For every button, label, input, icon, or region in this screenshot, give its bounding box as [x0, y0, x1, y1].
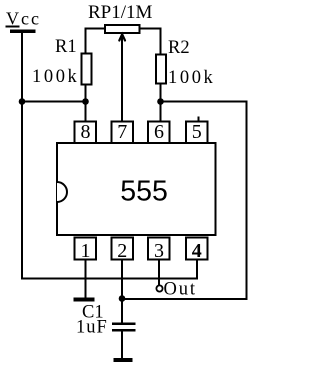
wire: R2 bottom to right rail, down and to C1 top node — [122, 102, 247, 300]
wire: pin 1 down to ground — [85, 260, 87, 300]
svg-text:7: 7 — [117, 121, 127, 143]
pin 1 — [75, 238, 97, 263]
pin 4 — [186, 238, 208, 263]
svg-text:5: 5 — [192, 121, 202, 143]
wire: R1 bottom to pin 8 — [85, 85, 87, 121]
pin 8 — [75, 121, 97, 143]
Vcc supply bar — [10, 30, 36, 34]
svg-text:100k: 100k — [32, 67, 79, 87]
wire: Vcc rail to R1 bottom horizontal — [22, 101, 86, 103]
resistor R1 — [82, 54, 92, 85]
ground symbol at C1 — [114, 358, 133, 362]
wire: pin 3 to Out terminal — [158, 260, 160, 286]
pin 2 — [112, 238, 134, 263]
wiper arrow of RP1 (to pin 7) — [119, 34, 125, 122]
junction dot at pin2/C1 node — [119, 295, 126, 302]
svg-text:6: 6 — [154, 121, 164, 143]
svg-text:2: 2 — [117, 240, 127, 262]
ground symbol at pin 1 — [74, 298, 95, 302]
svg-text:R2: R2 — [168, 38, 190, 58]
wire: R2 bottom to pin 6 — [160, 84, 162, 121]
resistor R2 — [156, 55, 166, 84]
power net Vcc label — [6, 9, 41, 29]
svg-text:555: 555 — [120, 176, 168, 208]
potentiometer RP1 body — [105, 25, 140, 33]
svg-text:4: 4 — [192, 240, 202, 262]
pin 6 — [148, 121, 170, 143]
svg-text:8: 8 — [81, 121, 91, 143]
svg-text:1uF: 1uF — [76, 318, 108, 338]
pin 5 — [186, 117, 208, 144]
junction dot at Vcc rail — [19, 98, 26, 105]
svg-text:3: 3 — [154, 240, 164, 262]
svg-text:Out: Out — [164, 280, 197, 300]
pin 7 — [112, 121, 134, 143]
wire: C1 bottom to ground — [121, 332, 123, 359]
svg-text:R1: R1 — [55, 37, 77, 57]
wire: left Vcc rail vertical — [21, 33, 23, 280]
svg-text:1: 1 — [81, 240, 91, 262]
wire: reset rail Vcc to pin 4 — [22, 260, 197, 279]
wire: RP1 right lead to R2 top — [140, 29, 161, 56]
junction dot at R1 bottom — [82, 98, 89, 105]
svg-text:RP1/1M: RP1/1M — [88, 2, 153, 23]
IC notch — [57, 182, 67, 202]
IC U1 555 body — [57, 143, 216, 235]
capacitor C1 — [112, 323, 136, 332]
Out terminal circle — [156, 285, 162, 291]
wire: pin 2 down to C1 — [121, 260, 123, 325]
pin 3 — [148, 238, 170, 263]
wire: RP1 left lead to R1 top — [86, 29, 106, 55]
junction dot at R2 bottom — [157, 98, 164, 105]
svg-text:100k: 100k — [168, 68, 215, 88]
potentiometer RP1 label — [88, 2, 153, 23]
